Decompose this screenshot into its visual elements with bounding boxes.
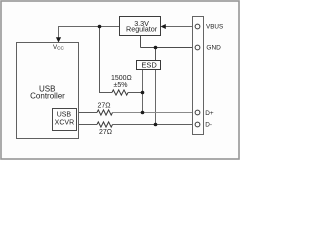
svg-text:27Ω: 27Ω: [99, 129, 112, 136]
arrowhead regulator input (points left into regulator): [161, 24, 166, 29]
wire ESD left drop to D+: [142, 70, 144, 113]
pin VBUS circle: [195, 24, 200, 29]
pin D- circle: [195, 122, 200, 127]
wire 3.3V rail from Vcc corner to regulator input: [59, 27, 120, 40]
wire ESD top feed: [155, 48, 157, 61]
wire 1500 ohm branch from 3.3V rail: [100, 27, 113, 93]
junction dot D- line / ESD right drop: [154, 123, 158, 127]
svg-text:VCC: VCC: [53, 44, 65, 51]
svg-text:USB: USB: [57, 112, 72, 119]
regulator U1 3.3V box: [120, 17, 161, 36]
wire ESD right drop to D-: [155, 70, 157, 125]
ESD suppressor box: [137, 61, 161, 70]
wire D- resistor to connector: [113, 124, 196, 126]
arrowhead Vcc supply (points down into controller): [56, 37, 61, 42]
svg-text:GND: GND: [206, 44, 221, 51]
resistor R1 1500 ohm zigzag: [112, 90, 128, 95]
junction dot GND rail / ESD feed: [154, 46, 158, 50]
USB connector J1 box: [193, 17, 204, 135]
wire D- from XCVR to resistor: [77, 124, 98, 126]
svg-text:ESD: ESD: [141, 61, 157, 70]
svg-text:VBUS: VBUS: [206, 23, 223, 30]
svg-text:D+: D+: [205, 110, 214, 117]
wire VBUS pin to regulator arrow: [166, 26, 196, 28]
pin D+ circle: [195, 110, 200, 115]
svg-text:D-: D-: [205, 121, 212, 128]
wire D+ from XCVR to resistor: [77, 112, 98, 114]
wire GND rail: [141, 47, 196, 49]
wire regulator ground drop: [140, 36, 142, 48]
USB XCVR box: [53, 109, 77, 131]
wire D+ resistor to connector: [113, 112, 196, 114]
pin GND circle: [195, 45, 200, 50]
junction dot 1500 ohm / ESD left drop: [141, 91, 145, 95]
svg-text:Controller: Controller: [30, 91, 65, 100]
svg-text:XCVR: XCVR: [55, 120, 74, 127]
junction dot 3.3V rail / 1500 ohm branch: [98, 25, 102, 29]
svg-text:Regulator: Regulator: [126, 25, 158, 34]
svg-text:27Ω: 27Ω: [97, 103, 110, 110]
junction dot D+ line / ESD left drop: [141, 111, 145, 115]
USB Controller box: [17, 43, 79, 139]
resistor R3 27 ohm zigzag (D- line): [97, 122, 113, 127]
svg-text:±5%: ±5%: [114, 82, 128, 89]
resistor R2 27 ohm zigzag (D+ line): [97, 110, 113, 115]
wire 1500 ohm to ESD left drop: [128, 92, 143, 94]
